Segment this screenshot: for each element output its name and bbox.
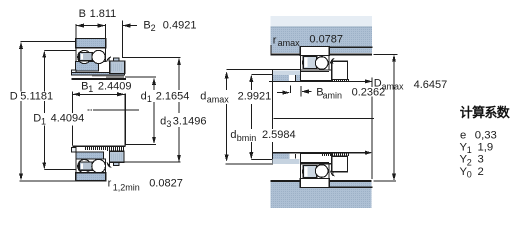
svg-text:amin: amin	[323, 90, 343, 100]
right centerline	[274, 117, 374, 119]
dimension damax line	[225, 71, 229, 162]
left lower ball right	[92, 159, 106, 173]
heading calculation factors	[460, 105, 511, 120]
svg-text:amax: amax	[207, 95, 230, 105]
label Damax	[374, 78, 448, 92]
dimension Da line	[392, 55, 396, 181]
label d3	[159, 113, 207, 129]
label D1	[33, 113, 86, 127]
svg-text:2: 2	[151, 23, 156, 33]
left upper ball right	[92, 50, 105, 63]
label B2	[143, 19, 196, 33]
left upper sleeve step	[71, 70, 76, 73]
svg-text:amax: amax	[382, 82, 405, 92]
left lower cage	[79, 162, 92, 170]
housing top light strip	[271, 16, 372, 26]
left lower sleeve thread large	[108, 147, 124, 151]
dimension dbmin bottom extension	[251, 159, 272, 161]
dimension Bamin left arrow	[277, 85, 290, 94]
svg-text:e: e	[460, 129, 466, 141]
svg-text:d: d	[141, 90, 147, 102]
housing top bearing notch	[300, 46, 330, 55]
right bearing lower thread	[323, 153, 349, 156]
dimension d3 line	[177, 58, 181, 162]
svg-text:D: D	[374, 78, 382, 90]
label B1	[81, 80, 131, 94]
shaft bottom surface line	[273, 151, 373, 155]
svg-text:r: r	[273, 34, 277, 46]
left lower inner ring	[76, 152, 104, 160]
svg-text:1.811: 1.811	[90, 8, 117, 20]
left lower ball zone	[76, 159, 105, 173]
left bearing upper inner ring	[76, 62, 99, 71]
svg-text:5.1181: 5.1181	[20, 91, 53, 103]
right upper lock nut	[332, 61, 348, 79]
label Bamin	[316, 86, 386, 100]
right upper inner ring sleeve	[301, 70, 332, 80]
svg-text:1: 1	[88, 84, 93, 94]
svg-text:2.9921: 2.9921	[238, 91, 272, 103]
right bearing upper ball zone	[301, 56, 329, 71]
shaft right edge	[124, 94, 126, 146]
label r12min	[108, 177, 183, 192]
left upper cage	[79, 53, 92, 61]
svg-text:2: 2	[478, 166, 484, 178]
left lower sleeve step	[71, 147, 76, 152]
svg-text:3: 3	[166, 119, 171, 129]
right lower lock nut	[332, 156, 348, 172]
svg-text:4.4094: 4.4094	[51, 113, 85, 125]
left bearing upper outer ring	[76, 38, 106, 47]
shaft end face line	[272, 70, 274, 165]
factor Y1	[460, 142, 494, 156]
left upper lock nut	[110, 61, 125, 74]
left lower lock nut	[109, 151, 124, 162]
right lower cage	[303, 166, 317, 178]
svg-text:r: r	[108, 177, 112, 189]
svg-text:amax: amax	[278, 38, 301, 48]
dimension d1 extension top	[125, 76, 156, 78]
factor e	[460, 129, 497, 141]
dimension Da top extension	[374, 54, 398, 56]
left bearing upper ball zone	[76, 48, 105, 62]
svg-text:0.4921: 0.4921	[163, 19, 197, 31]
dimension D extension bottom	[20, 180, 77, 182]
label damax	[200, 90, 272, 105]
left lower lock washer tab	[107, 162, 119, 167]
left upper ball left	[78, 50, 91, 63]
svg-text:计算系数: 计算系数	[460, 105, 511, 120]
housing bottom seat line	[330, 187, 373, 189]
dimension dbmin top extension	[251, 73, 272, 75]
right upper ball left	[303, 57, 315, 69]
dimension D1 extension bottom	[44, 169, 76, 171]
dimension D1 extension top	[44, 49, 75, 51]
factor Y2	[460, 154, 484, 168]
right lower ball right	[315, 165, 328, 178]
svg-text:3.1496: 3.1496	[173, 115, 207, 127]
dimension B extension lines	[76, 24, 105, 38]
right Bamin extension vertical	[371, 78, 373, 180]
right upper washer tab	[330, 59, 333, 64]
left lower outer ring	[76, 173, 106, 181]
dimension Bamin right arrow	[301, 86, 312, 96]
svg-text:2.5984: 2.5984	[262, 129, 296, 141]
left bearing lower sleeve bore line	[72, 145, 125, 147]
right upper thread	[333, 79, 349, 81]
svg-text:0.0827: 0.0827	[149, 177, 183, 189]
svg-text:1: 1	[467, 145, 472, 155]
factor Y0	[460, 166, 484, 180]
svg-text:d: d	[160, 115, 166, 127]
svg-text:4.6457: 4.6457	[414, 79, 448, 91]
label d1	[140, 90, 192, 104]
housing top band	[271, 26, 373, 55]
dimension B1 line	[72, 92, 125, 96]
svg-text:2: 2	[467, 157, 472, 167]
shaft shoulder top line	[227, 69, 300, 71]
label dbmin	[230, 129, 297, 143]
shaft shoulder upper	[273, 70, 300, 81]
svg-text:1,2min: 1,2min	[113, 183, 140, 193]
dimension B2 extension elbow + d3 top extension	[122, 20, 180, 57]
left upper sleeve bore line	[71, 78, 126, 80]
left upper lock washer tab	[107, 57, 119, 62]
label ramax	[273, 34, 343, 49]
left centerline	[88, 110, 140, 111]
dimension B line	[76, 24, 105, 28]
dimension B2 arrow	[123, 24, 137, 28]
right upper cage	[303, 56, 317, 68]
svg-text:0.0787: 0.0787	[309, 34, 343, 46]
right lower ball left	[303, 166, 315, 178]
svg-text:B: B	[79, 8, 86, 20]
dimension d1 line	[152, 78, 156, 144]
label B	[79, 8, 117, 20]
svg-text:1: 1	[147, 94, 152, 104]
housing bottom bearing notch	[300, 180, 330, 188]
dimension Da bottom extension	[374, 180, 396, 182]
shaft shoulder lower	[273, 153, 300, 164]
dimension D extension top	[20, 40, 75, 42]
svg-text:2.4409: 2.4409	[98, 80, 132, 92]
dimension D line	[19, 42, 23, 181]
right bearing lower outer ring	[300, 179, 329, 188]
dimension D1 line	[42, 51, 46, 170]
label D	[10, 91, 58, 103]
housing bottom band	[271, 180, 372, 208]
svg-text:0,33: 0,33	[475, 129, 497, 141]
dimension d3 extension bottom	[109, 161, 181, 163]
left lower ball left	[78, 160, 91, 173]
svg-text:d: d	[230, 129, 236, 141]
left upper sleeve thread large	[107, 75, 123, 78]
svg-text:D: D	[10, 91, 18, 103]
svg-text:2.1654: 2.1654	[156, 90, 190, 102]
shaft top surface line	[269, 79, 373, 83]
dimension dbmin line	[249, 75, 253, 160]
right bearing lower inner sleeve	[301, 153, 332, 163]
svg-text:1: 1	[41, 116, 46, 126]
left upper sleeve strip	[71, 72, 124, 75]
shaft shoulder bottom line	[226, 163, 273, 165]
right bearing upper outer ring	[300, 46, 329, 55]
right bearing lower ball zone	[301, 164, 329, 179]
right upper ball right	[315, 57, 328, 70]
svg-text:0: 0	[467, 170, 472, 180]
svg-text:d: d	[200, 91, 206, 103]
svg-text:1,9: 1,9	[478, 142, 494, 154]
left upper sleeve thread small	[93, 75, 105, 77]
right lower washer tab	[331, 171, 334, 176]
svg-text:bmin: bmin	[237, 133, 257, 143]
dimension d1 extension bottom	[125, 144, 156, 146]
svg-text:3: 3	[478, 154, 484, 166]
shaft left edge	[71, 92, 73, 146]
left lower sleeve thread small	[86, 147, 106, 150]
